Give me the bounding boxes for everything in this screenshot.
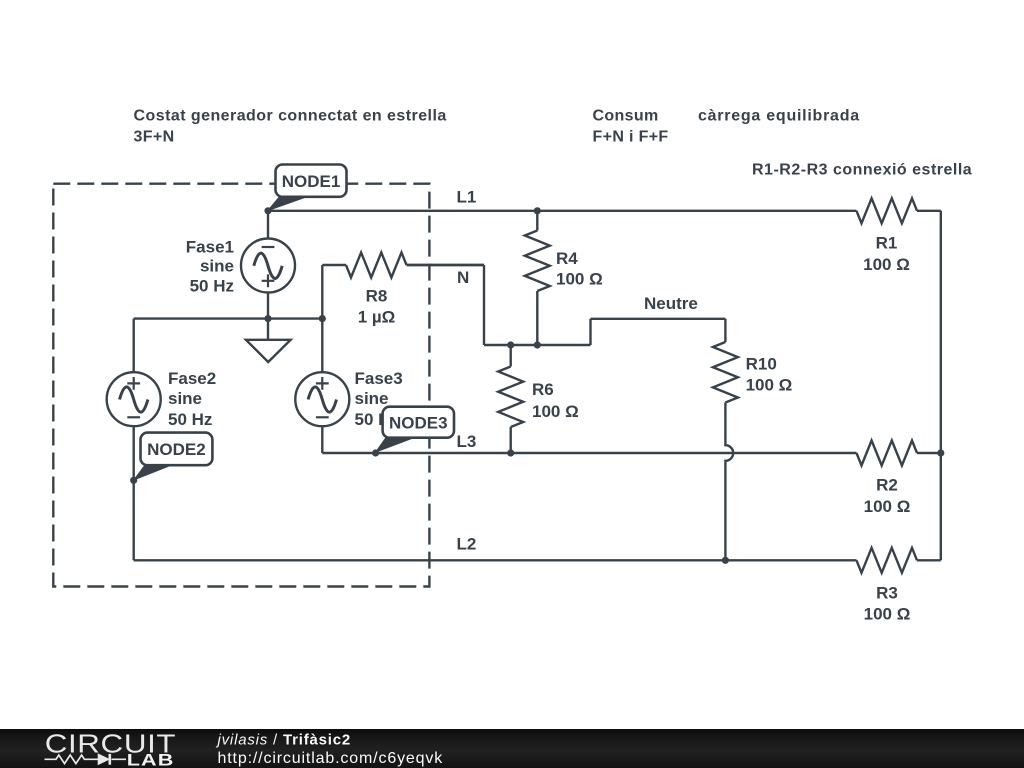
svg-text:Fase3: Fase3 <box>355 369 403 388</box>
svg-text:Neutre: Neutre <box>644 294 698 313</box>
svg-text:100 Ω: 100 Ω <box>864 497 911 516</box>
svg-text:NODE1: NODE1 <box>282 172 341 191</box>
resistor R2 <box>857 441 918 466</box>
wire neutral bus <box>484 344 591 346</box>
svg-text:1 µΩ: 1 µΩ <box>358 308 396 327</box>
svg-text:Consum: Consum <box>593 108 659 125</box>
svg-text:sine: sine <box>168 389 202 408</box>
wire Fase2 drop to L2 <box>132 426 134 560</box>
resistor R10 <box>713 342 738 403</box>
wire right star rail <box>940 211 942 561</box>
node NODE2 callout <box>134 466 170 480</box>
svg-text:R4: R4 <box>556 249 578 268</box>
wire NODE1 stem <box>267 211 269 239</box>
CircuitLab logo wordmark LAB <box>127 752 175 768</box>
svg-text:L3: L3 <box>457 432 477 451</box>
svg-text:http://circuitlab.com/c6yeqvk: http://circuitlab.com/c6yeqvk <box>218 750 444 767</box>
junction node on L1 at NODE1 <box>264 207 271 214</box>
wire Fase3 drop <box>321 426 323 453</box>
svg-text:50 Hz: 50 Hz <box>190 277 234 296</box>
junction R6 top / neutral <box>507 341 514 348</box>
svg-text:R3: R3 <box>876 584 898 603</box>
svg-text:R10: R10 <box>746 354 777 373</box>
svg-text:L2: L2 <box>457 535 477 554</box>
wire R10 top lead <box>724 319 726 342</box>
wire L1 horizontal <box>268 210 857 212</box>
wire neutral horizontal (Neutre) <box>591 318 726 320</box>
svg-text:R2: R2 <box>876 475 898 494</box>
svg-text:sine: sine <box>355 389 389 408</box>
resistor R4 <box>536 211 538 231</box>
wire Fase1 bottom stem <box>267 292 269 318</box>
junction NODE2 on Fase2 drop <box>130 477 137 484</box>
junction NODE3 on L3 <box>372 449 379 456</box>
voltage source Fase2 <box>107 372 161 426</box>
junction R6 bottom / L3 <box>507 449 514 456</box>
svg-text:50 Hz: 50 Hz <box>168 410 212 429</box>
wire ground bus <box>134 317 324 319</box>
svg-text:NODE3: NODE3 <box>389 413 448 432</box>
wire R10 bottom lead with hop over L3 <box>725 403 733 561</box>
svg-text:100 Ω: 100 Ω <box>863 255 910 274</box>
junction R10 drop / L2 <box>722 557 729 564</box>
svg-text:Fase1: Fase1 <box>186 238 234 257</box>
svg-text:100 Ω: 100 Ω <box>532 402 579 421</box>
svg-text:L1: L1 <box>457 188 477 207</box>
CircuitLab logo wordmark CIRCUIT <box>45 730 176 759</box>
svg-text:Fase2: Fase2 <box>168 369 216 388</box>
svg-text:LAB: LAB <box>127 752 175 768</box>
svg-text:R6: R6 <box>532 380 554 399</box>
voltage source Fase1 <box>241 239 295 293</box>
junction ground node <box>264 315 271 322</box>
junction R4 bottom / neutral <box>534 341 541 348</box>
junction R8/Fase3/ground bus <box>319 315 326 322</box>
wire R8 left drop <box>321 265 323 319</box>
resistor R1 <box>857 198 918 223</box>
junction star point R1-R2-R3 <box>937 449 944 456</box>
svg-text:càrrega equilibrada: càrrega equilibrada <box>698 108 860 125</box>
wire Fase2 riser <box>132 319 134 373</box>
junction R4/L1 <box>534 207 541 214</box>
resistor R8 <box>322 264 346 266</box>
node NODE3 callout <box>376 438 413 452</box>
svg-text:Costat generador connectat en: Costat generador connectat en estrella <box>134 108 447 125</box>
svg-text:R1-R2-R3 connexió estrella: R1-R2-R3 connexió estrella <box>752 162 972 179</box>
resistor R6 <box>510 345 512 367</box>
svg-text:100 Ω: 100 Ω <box>556 270 603 289</box>
svg-text:F+N i F+F: F+N i F+F <box>593 128 669 145</box>
wire R8 lead to N corner <box>407 264 485 266</box>
voltage source Fase3 <box>295 372 349 426</box>
CircuitLab logo resistor-diode glyph <box>45 754 127 765</box>
wire N drop <box>483 265 485 345</box>
svg-text:jvilasis / Trifàsic2: jvilasis / Trifàsic2 <box>216 732 352 749</box>
wire neutral step up <box>589 319 591 345</box>
svg-text:100 Ω: 100 Ω <box>746 376 793 395</box>
wire L2 horizontal <box>134 559 857 561</box>
svg-text:3F+N: 3F+N <box>134 128 175 145</box>
wire Fase3 riser <box>321 319 323 373</box>
dashed generator boundary box <box>53 184 429 587</box>
svg-text:NODE2: NODE2 <box>147 440 206 459</box>
wire L3 horizontal <box>322 452 856 454</box>
svg-text:R1: R1 <box>876 233 898 252</box>
svg-text:sine: sine <box>200 257 234 276</box>
svg-text:N: N <box>457 268 469 287</box>
svg-text:100 Ω: 100 Ω <box>864 604 911 623</box>
svg-text:R8: R8 <box>366 287 388 306</box>
resistor R3 <box>857 548 918 573</box>
ground symbol <box>267 319 269 340</box>
node NODE1 callout <box>268 197 305 210</box>
